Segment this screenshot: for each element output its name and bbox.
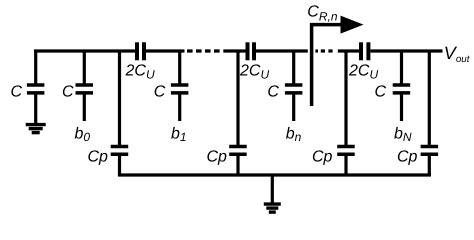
svg-text:Cp: Cp (397, 149, 418, 166)
svg-text:2CU: 2CU (239, 62, 269, 81)
svg-text:C: C (154, 83, 166, 100)
svg-text:b0: b0 (75, 126, 91, 144)
svg-text:Cp: Cp (312, 149, 333, 166)
svg-text:Cp: Cp (88, 149, 109, 166)
svg-text:bn: bn (286, 126, 302, 144)
svg-text:Vout: Vout (444, 43, 471, 65)
svg-text:C: C (375, 83, 387, 100)
svg-text:C: C (62, 83, 74, 100)
svg-text:b1: b1 (171, 126, 187, 144)
svg-text:C: C (11, 83, 23, 100)
svg-text:C: C (267, 83, 279, 100)
svg-text:bN: bN (394, 126, 412, 144)
svg-text:CR,n: CR,n (307, 4, 338, 24)
svg-text:2CU: 2CU (125, 62, 155, 81)
svg-text:2CU: 2CU (348, 63, 378, 82)
svg-text:Cp: Cp (207, 149, 228, 166)
